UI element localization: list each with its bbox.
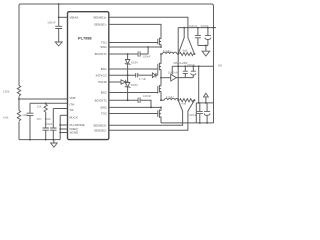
- svg-text:VO: VO: [218, 63, 222, 67]
- svg-text:10uFx2: 10uFx2: [188, 24, 198, 28]
- wire VFB to IC: [19, 98, 68, 100]
- svg-text:SENSE2+: SENSE2+: [93, 123, 107, 127]
- wire SENSE2+: [109, 111, 183, 125]
- wire lower block left: [195, 103, 197, 123]
- svg-text:PL7998: PL7998: [78, 35, 92, 40]
- wire BOOST1: [109, 53, 138, 55]
- svg-text:4.7uF: 4.7uF: [139, 77, 147, 81]
- svg-text:100nF: 100nF: [143, 94, 151, 98]
- svg-text:SW1: SW1: [100, 45, 107, 49]
- wire VOUT node: [178, 27, 216, 29]
- svg-text:VIN 4~26V: VIN 4~26V: [173, 61, 187, 65]
- node VFB divider junction: [18, 98, 20, 100]
- transistor Q4: [158, 110, 161, 118]
- wire right rail: [212, 4, 214, 123]
- wire BG2: [109, 92, 158, 94]
- wire SGND pin: [60, 132, 67, 134]
- wire SW2: [109, 106, 161, 108]
- wire Q4 to lower block bottom: [161, 117, 214, 123]
- capacitor C-VIN2 220uF: [192, 66, 194, 71]
- svg-text:BUCK: BUCK: [70, 116, 78, 120]
- transistor Q3: [158, 85, 161, 94]
- svg-text:SS34: SS34: [131, 83, 138, 87]
- svg-text:SGND: SGND: [70, 131, 80, 135]
- supply arrow lower: [205, 97, 207, 103]
- node VBIAS junction on top rail: [58, 3, 60, 5]
- ground G2 bottom-left: [53, 140, 55, 143]
- wire ITH comp top: [30, 102, 68, 104]
- wire left rail upper: [19, 4, 21, 86]
- node VBIAS pin junction: [58, 16, 60, 18]
- wire VBIAS to IC: [59, 16, 68, 18]
- svg-text:10uFx4: 10uFx4: [168, 71, 178, 75]
- wire BUCK pin: [60, 114, 67, 116]
- node L1/R-S1 junction: [177, 53, 179, 55]
- transistor Q1: [158, 38, 161, 46]
- svg-text:SENSE1+: SENSE1+: [93, 15, 107, 19]
- svg-text:100nF: 100nF: [45, 122, 53, 126]
- wire sense leg A ch2: [178, 100, 182, 111]
- wire VIN rail: [172, 65, 213, 67]
- svg-text:BOOST2: BOOST2: [95, 98, 108, 102]
- wire SENSE1+: [109, 17, 188, 37]
- svg-text:130k: 130k: [3, 90, 10, 94]
- diode D-PGND: [121, 80, 126, 84]
- wire FREQ pin: [60, 128, 67, 130]
- svg-text:BG2: BG2: [101, 91, 107, 95]
- IC U1 PL7998 dual switching controller: [68, 12, 109, 140]
- capacitor C-INTVCC 4.7uF: [136, 73, 138, 77]
- svg-text:100nF: 100nF: [143, 54, 151, 58]
- wire TG2: [109, 113, 158, 115]
- wire sense leg B ch1: [188, 38, 195, 55]
- wire sense leg B ch2: [188, 100, 195, 111]
- svg-text:BG1: BG1: [101, 67, 107, 71]
- wire funnel spine ch1: [177, 28, 179, 101]
- svg-text:SS34: SS34: [131, 60, 138, 64]
- svg-text:VFB: VFB: [70, 96, 76, 100]
- ground G1: [55, 42, 62, 46]
- wire BG1: [109, 68, 158, 70]
- wire top VOUT rail: [21, 3, 212, 5]
- ground G-VIN arrow: [171, 74, 177, 81]
- transistor Q2: [158, 63, 161, 70]
- wire bottom-left rail: [19, 139, 60, 141]
- node SW1/L1 junction: [160, 53, 162, 55]
- capacitor C-VIN1 10uFx4: [184, 66, 186, 71]
- svg-text:BOOST1: BOOST1: [95, 52, 108, 56]
- svg-text:INTVCC: INTVCC: [96, 73, 108, 77]
- wire INTVCC: [109, 74, 136, 76]
- svg-text:PGND: PGND: [98, 80, 108, 84]
- svg-text:100nF: 100nF: [47, 21, 55, 25]
- wire PLL/MODE pin: [60, 124, 67, 126]
- diode D-BG1 drive: [152, 73, 156, 78]
- svg-text:15n: 15n: [37, 117, 42, 121]
- svg-text:SENSE1-: SENSE1-: [94, 23, 107, 27]
- wire PGND: [109, 81, 121, 83]
- wire out caps bottom: [198, 45, 208, 47]
- svg-text:ITH: ITH: [70, 102, 75, 106]
- wire SENSE1-: [109, 24, 161, 39]
- svg-text:12k: 12k: [37, 105, 42, 109]
- svg-text:6.8k: 6.8k: [3, 116, 9, 120]
- svg-text:220uF: 220uF: [187, 63, 195, 67]
- svg-text:SS: SS: [70, 108, 74, 112]
- node GND mid junction: [160, 77, 162, 79]
- wire lower block top: [196, 102, 213, 104]
- capacitor C-B2: [206, 103, 208, 112]
- wire VBIAS drop: [58, 4, 60, 17]
- svg-text:VBIAS: VBIAS: [70, 15, 79, 19]
- wire TG1: [109, 42, 158, 44]
- svg-text:4u8: 4u8: [182, 48, 187, 52]
- svg-text:220uF: 220uF: [189, 113, 197, 117]
- wire sense leg A ch1: [178, 28, 184, 54]
- wire SW1: [109, 46, 161, 48]
- wire VIN to lower block: [198, 66, 200, 103]
- wire VIN return under caps: [177, 77, 194, 79]
- svg-text:TG2: TG2: [101, 112, 107, 116]
- svg-text:SW2: SW2: [100, 106, 107, 110]
- wire BOOST2: [109, 99, 138, 101]
- ground G-OUT1: [205, 46, 207, 52]
- capacitor C-B1: [199, 103, 201, 112]
- wire SENSE2-: [109, 111, 188, 130]
- wire to VIN return: [161, 77, 171, 79]
- svg-text:SENSE2-: SENSE2-: [94, 128, 107, 132]
